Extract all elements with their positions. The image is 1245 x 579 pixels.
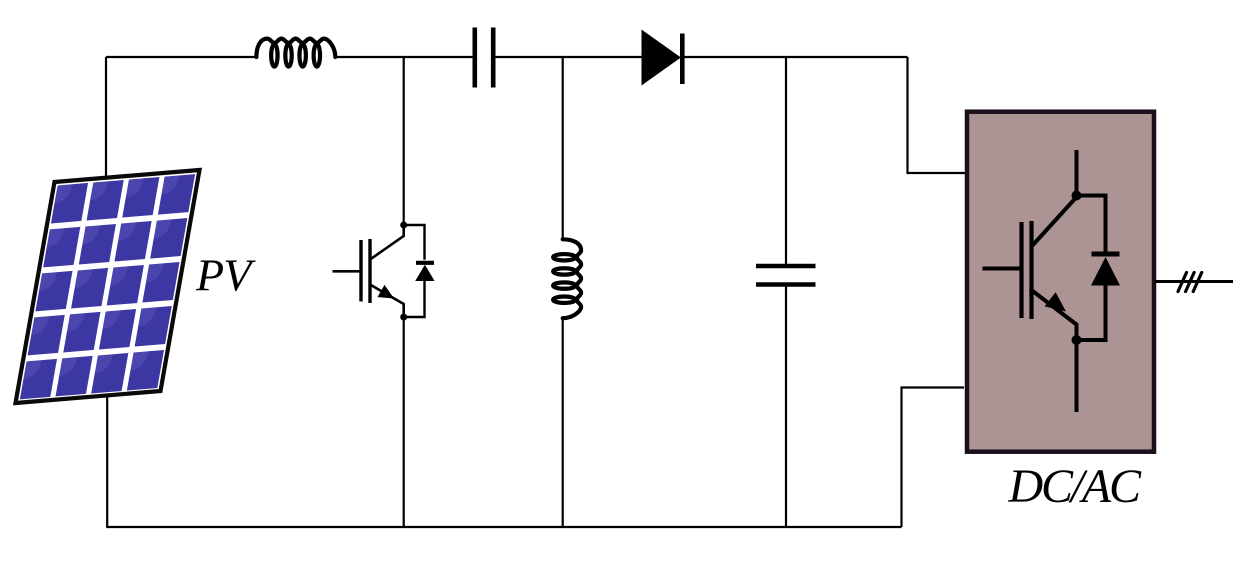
wire: Q2 top node to diode branch — [1077, 196, 1106, 252]
wire: C2 branch lower — [785, 287, 787, 528]
PV panel — [16, 170, 200, 403]
svg-text:DC/AC: DC/AC — [1008, 460, 1143, 513]
IGBT Q2 (inside DC/AC block) with anti-parallel diode — [983, 150, 1121, 412]
three-phase slash marks — [1178, 273, 1202, 292]
wire: Q2 collector stub — [1075, 150, 1079, 196]
wire: L2 branch lower — [562, 318, 564, 528]
IGBT Q2 emitter lead — [1030, 289, 1077, 340]
IGBT Q1 gate bar — [359, 240, 362, 302]
DC/AC block box — [967, 112, 1154, 452]
wire: L2 branch upper — [562, 57, 564, 240]
wire: Q1 top node to diode branch — [404, 225, 425, 260]
diode D1 (top rail) — [642, 31, 682, 85]
wire: Q1 branch upper — [403, 57, 405, 222]
wire: DC/AC bottom connector to bottom rail — [902, 388, 965, 528]
diode D3 cathode bar — [1092, 252, 1120, 257]
wire: Q2 diode branch bottom — [1077, 285, 1106, 340]
node: Q1 collector — [400, 222, 407, 229]
IGBT Q2 gate lead — [983, 267, 1020, 271]
node: Q1 emitter — [400, 314, 407, 321]
wire: top rail segment D1 to right corner — [684, 56, 908, 58]
IGBT Q2 collector lead — [1032, 197, 1077, 247]
IGBT Q2 body bar — [1029, 221, 1033, 319]
IGBT Q1 with anti-parallel diode — [333, 222, 435, 321]
inductor L2 — [553, 239, 581, 318]
wire: left vertical from top rail to PV top — [105, 57, 107, 185]
inductor L1 — [256, 39, 335, 67]
node: Q2 collector — [1072, 191, 1082, 201]
wire: Q1 diode branch bottom — [404, 281, 425, 318]
diode D2 triangle — [415, 265, 434, 281]
wire: bottom rail — [106, 526, 901, 528]
wire: Q1 branch lower — [403, 320, 405, 527]
IGBT Q2 emitter arrow — [1045, 292, 1066, 311]
IGBT Q1 gate lead — [333, 270, 361, 273]
wire: top rail segment PV to L1 — [106, 56, 258, 58]
node: Q2 emitter — [1072, 335, 1082, 345]
IGBT Q1 body bar — [368, 239, 371, 303]
wire: top rail segment C1 to D1 — [495, 56, 643, 58]
svg-text:PV: PV — [195, 250, 256, 301]
wire: AC output — [1155, 280, 1233, 283]
capacitor C2 (shunt) — [756, 266, 816, 285]
wire: right top connector down and into DC/AC block — [908, 57, 966, 173]
wire: left vertical from PV bottom to bottom rail — [106, 394, 108, 527]
wire: C2 branch upper — [785, 57, 787, 264]
capacitor C1 (series, top rail) — [475, 28, 493, 88]
IGBT Q1 emitter arrow — [378, 285, 395, 299]
IGBT Q2 gate bar — [1019, 222, 1023, 318]
wire: Q2 emitter stub — [1075, 340, 1079, 412]
IGBT Q1 collector lead — [370, 225, 404, 260]
diode D2 cathode bar — [416, 261, 434, 265]
IGBT Q1 emitter lead — [370, 285, 404, 318]
wire: top rail segment L1 to C1 — [335, 56, 473, 58]
diode D3 triangle — [1091, 257, 1120, 286]
